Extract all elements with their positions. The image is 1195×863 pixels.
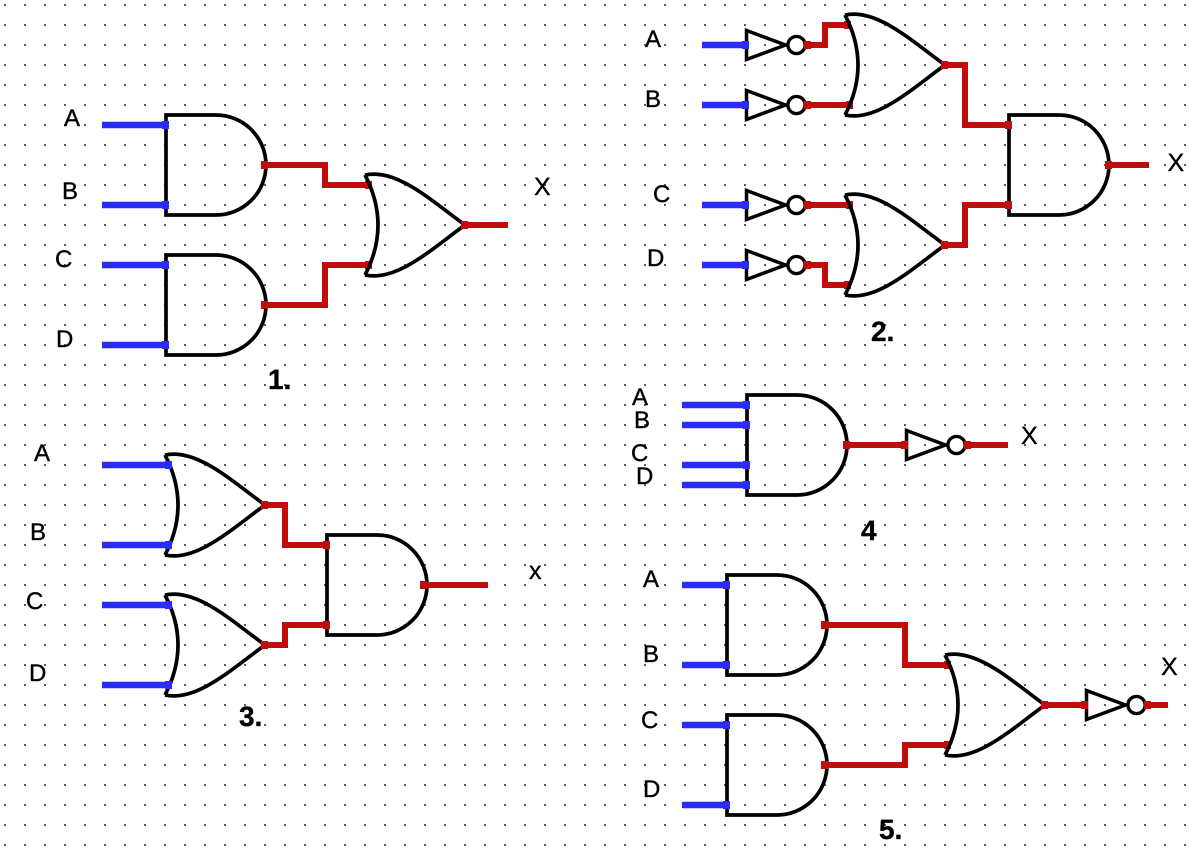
OR gate U18 (circuit 5 middle stage) [945, 654, 1045, 756]
label B (circuit 4) [636, 411, 649, 428]
wire input C (circuit 5) [682, 722, 729, 729]
wire U18 output to U19 input [1042, 702, 1087, 708]
junction dot at gate output (942,65) [941, 61, 948, 69]
label X output (circuit 5) [1162, 658, 1178, 675]
wire U15 bubble to X (circuit 4) [965, 442, 1008, 448]
wire U17 output to U18 bottom input [822, 745, 950, 765]
wire input B (circuit 2) [702, 102, 748, 109]
label A (circuit 2) [645, 30, 661, 47]
OR gate U9 (circuit 2, from C,D inverters) [845, 194, 945, 296]
wire input B (circuit 5) [682, 662, 729, 669]
label 2. (circuit number) [872, 321, 892, 341]
AND gate U10 (circuit 2 output stage) [1009, 115, 1109, 215]
wire U19 bubble to X (circuit 5) [1145, 702, 1168, 708]
label C (circuit 1) [56, 250, 71, 267]
AND gate U13 (circuit 3 output stage) [327, 535, 427, 635]
label D (circuit 5) [645, 780, 659, 797]
inverter U6 (circuit 2, input C) [747, 191, 806, 220]
AND gate U17 (circuit 5, inputs C,D) [727, 715, 827, 815]
label 4 (circuit number) [861, 521, 876, 540]
wire input A (circuit 1) [102, 122, 168, 129]
OR gate U8 (circuit 2, from A,B inverters) [845, 14, 945, 116]
inverter U7 (circuit 2, input D) [747, 251, 806, 280]
label A (circuit 5) [643, 570, 659, 587]
label C (circuit 5) [642, 711, 657, 728]
label x output (circuit 3) [529, 566, 541, 579]
wire input A (circuit 4) [682, 402, 749, 409]
OR gate U3 (circuit 1 output stage) [365, 174, 465, 276]
wire U14 output to U15 input [844, 442, 907, 448]
label D (circuit 1) [58, 330, 72, 347]
wire input C (circuit 4) [682, 462, 749, 469]
inverter U19 (circuit 5 output stage) [1087, 691, 1146, 720]
wire input A (circuit 5) [682, 582, 729, 589]
wire input D (circuit 2) [702, 262, 748, 269]
label B (circuit 2) [647, 90, 660, 107]
junction dot at gate output (262,645) [261, 641, 268, 649]
junction dot at gate output (942,245) [941, 241, 948, 249]
wire U9 output to U10 bottom input [942, 205, 1011, 245]
wire input C (circuit 3) [102, 602, 171, 609]
wire U10 output to X (circuit 2) [1106, 162, 1149, 168]
wire input C (circuit 2) [702, 202, 748, 209]
wire input B (circuit 4) [682, 422, 749, 429]
label 5. (circuit number) [880, 820, 901, 840]
wire U8 output to U10 top input [942, 65, 1011, 125]
inverter U4 (circuit 2, input A) [747, 31, 806, 60]
label X output (circuit 1) [535, 178, 551, 195]
label A (circuit 3) [34, 444, 50, 461]
AND gate U1 (circuit 1, inputs A,B) [166, 115, 266, 215]
label C (circuit 3) [27, 592, 42, 609]
label D (circuit 4) [638, 467, 652, 484]
wire U5 bubble to U8 bottom input [805, 102, 852, 108]
OR gate U12 (circuit 3, inputs C,D) [165, 594, 265, 696]
wire U12 output to U13 bottom input [262, 625, 329, 645]
label B (circuit 1) [64, 182, 77, 199]
label C (circuit 2) [654, 185, 669, 202]
OR gate U11 (circuit 3, inputs A,B) [165, 454, 265, 556]
label A (circuit 1) [64, 109, 80, 126]
label B (circuit 3) [32, 523, 45, 540]
junction dot at gate output (262,505) [261, 501, 268, 509]
wire U1 output to U3 top input [262, 165, 371, 185]
label X output (circuit 2) [1168, 154, 1184, 171]
label A (circuit 4) [632, 388, 648, 405]
wire input B (circuit 1) [102, 202, 168, 209]
wire input D (circuit 4) [682, 482, 749, 489]
label C (circuit 4) [632, 444, 647, 461]
inverter U15 (circuit 4 output stage) [907, 431, 966, 460]
label D (circuit 3) [31, 664, 45, 681]
wire input D (circuit 1) [102, 342, 168, 349]
wire U2 output to U3 bottom input [262, 265, 371, 305]
AND gate U16 (circuit 5, inputs A,B) [727, 575, 827, 675]
wire U4 bubble to U8 top input [805, 25, 850, 45]
AND gate U2 (circuit 1, inputs C,D) [166, 255, 266, 355]
wire U13 output to x (circuit 3) [421, 582, 488, 588]
wire U7 bubble to U9 bottom input [805, 265, 850, 285]
AND gate U14 (circuit 4, 4-input) [747, 395, 847, 495]
wire U16 output to U18 top input [822, 625, 950, 665]
wire input A (circuit 3) [102, 462, 171, 469]
label D (circuit 2) [649, 249, 663, 266]
wire U11 output to U13 top input [262, 505, 329, 545]
wire input C (circuit 1) [102, 262, 168, 269]
wire input B (circuit 3) [102, 542, 171, 549]
junction dot at gate output (462,225) [461, 221, 468, 229]
wire input D (circuit 3) [102, 682, 171, 689]
wire input A (circuit 2) [702, 42, 748, 49]
wire U3 output to X (circuit 1) [462, 222, 508, 228]
wire input D (circuit 5) [682, 802, 729, 809]
junction dot at gate output (1042,705) [1041, 701, 1048, 709]
label B (circuit 5) [645, 645, 658, 662]
label 3. (circuit number) [240, 706, 261, 726]
label X output (circuit 4) [1022, 427, 1038, 444]
wire U6 bubble to U9 top input [805, 202, 852, 208]
inverter U5 (circuit 2, input B) [747, 91, 806, 120]
label 1. (circuit number) [270, 370, 290, 389]
